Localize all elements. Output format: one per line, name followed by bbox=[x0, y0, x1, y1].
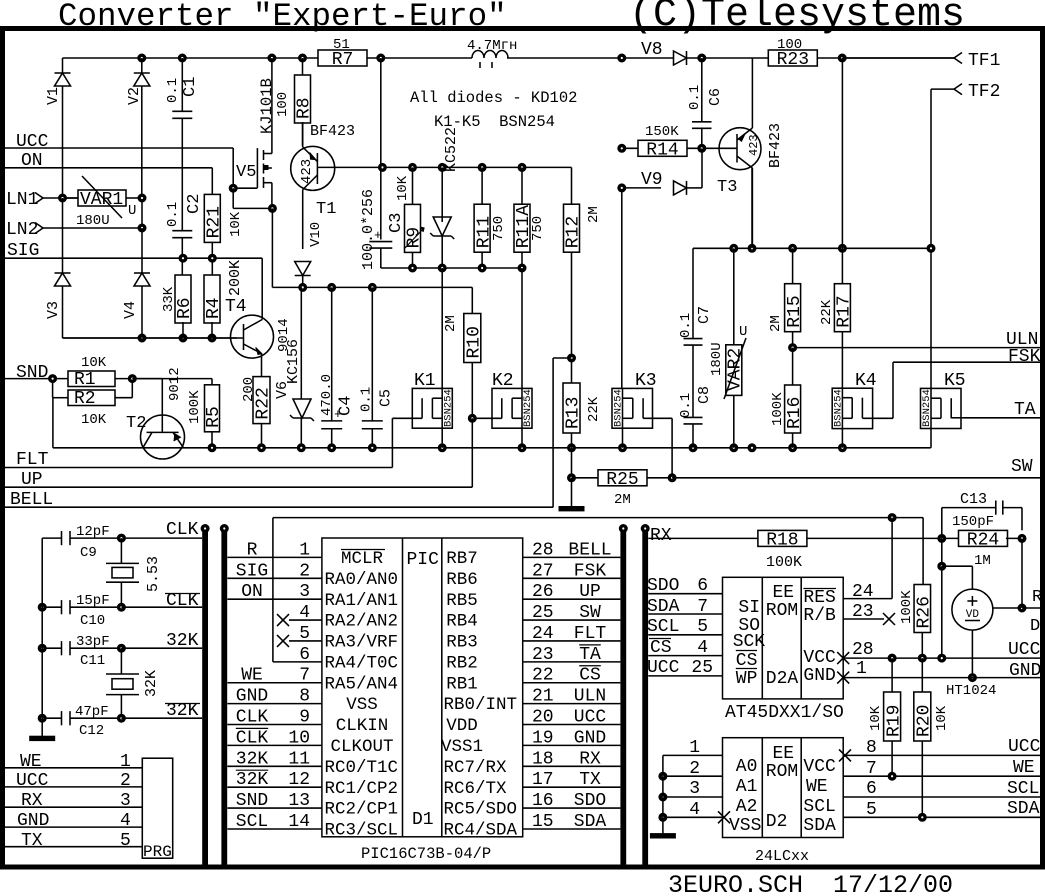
svg-text:C1: C1 bbox=[181, 77, 200, 97]
net ON bbox=[5, 151, 212, 171]
ground crystal bbox=[30, 736, 55, 740]
svg-text:C7: C7 bbox=[696, 306, 713, 324]
svg-text:U: U bbox=[128, 203, 136, 219]
inductor L1 4.7MGn bbox=[467, 38, 517, 68]
svg-text:VDD: VDD bbox=[446, 716, 478, 736]
svg-text:V9: V9 bbox=[641, 170, 663, 190]
net SW bbox=[672, 457, 1040, 478]
svg-text:R4: R4 bbox=[204, 297, 224, 319]
wire RA4 to RES bbox=[273, 514, 923, 662]
svg-text:CS: CS bbox=[579, 666, 601, 686]
svg-text:R15: R15 bbox=[785, 295, 805, 327]
svg-text:D2: D2 bbox=[766, 812, 788, 832]
capacitor C13 bbox=[942, 491, 1022, 538]
IC D2A pin 23 bbox=[843, 602, 895, 625]
svg-text:R8: R8 bbox=[295, 97, 315, 119]
svg-text:33K: 33K bbox=[161, 286, 177, 312]
capacitor C1 bbox=[165, 58, 200, 231]
svg-text:0.1: 0.1 bbox=[678, 313, 694, 338]
svg-text:C5: C5 bbox=[378, 389, 395, 407]
svg-text:R18: R18 bbox=[766, 530, 798, 550]
svg-text:VD: VD bbox=[966, 609, 980, 621]
net LN1 bbox=[6, 190, 78, 210]
svg-text:5: 5 bbox=[120, 831, 131, 851]
IC D2A AT45DXX1 box bbox=[723, 577, 844, 723]
resistor R11A bbox=[514, 167, 546, 268]
diode V4 bbox=[122, 228, 150, 338]
svg-text:RB2: RB2 bbox=[446, 653, 478, 673]
svg-text:2M: 2M bbox=[443, 315, 459, 332]
net WE prg bbox=[5, 752, 142, 772]
resistor R10 bbox=[443, 287, 485, 418]
footer 3EURO.SCH 17/12/00 bbox=[668, 871, 953, 896]
wire crystal left bbox=[41, 538, 43, 736]
svg-text:V1: V1 bbox=[45, 87, 62, 105]
svg-text:C9: C9 bbox=[80, 545, 97, 561]
svg-text:10K: 10K bbox=[934, 705, 950, 731]
svg-text:WP: WP bbox=[736, 669, 758, 689]
net 32K out bbox=[121, 631, 202, 651]
svg-text:V10: V10 bbox=[308, 222, 324, 247]
svg-text:SW: SW bbox=[1011, 457, 1033, 477]
svg-text:470.0: 470.0 bbox=[319, 374, 335, 416]
relay K1 bbox=[392, 268, 454, 468]
svg-text:V2: V2 bbox=[126, 87, 143, 105]
net UCC bottom (pin8) bbox=[839, 737, 1041, 761]
resistor R5 bbox=[187, 379, 224, 448]
resistor R14 bbox=[618, 124, 719, 160]
svg-text:FSK: FSK bbox=[574, 561, 607, 581]
svg-text:SIG: SIG bbox=[236, 561, 268, 581]
svg-text:FLT: FLT bbox=[574, 624, 607, 644]
svg-text:2M: 2M bbox=[768, 315, 784, 332]
svg-text:TF2: TF2 bbox=[968, 82, 1000, 102]
svg-text:PIC: PIC bbox=[407, 550, 440, 570]
svg-text:0.1: 0.1 bbox=[165, 202, 181, 227]
wire T2 collector bbox=[53, 398, 143, 448]
svg-text:KJ101B: KJ101B bbox=[258, 78, 276, 134]
svg-text:KC522: KC522 bbox=[443, 127, 460, 172]
svg-text:RB3: RB3 bbox=[446, 633, 478, 653]
svg-text:WE: WE bbox=[1013, 758, 1035, 778]
svg-text:R/B: R/B bbox=[803, 606, 836, 626]
resistor R11 bbox=[474, 167, 507, 268]
net RX feed bbox=[648, 526, 758, 546]
svg-text:22K: 22K bbox=[819, 299, 835, 325]
bus bar 2 bbox=[220, 525, 228, 866]
diode V8 bbox=[641, 40, 687, 65]
resistor R2 bbox=[49, 375, 137, 428]
resistor R20 bbox=[914, 658, 950, 817]
svg-text:GND: GND bbox=[574, 728, 606, 748]
text all diodes note bbox=[410, 89, 577, 131]
relay K5 bbox=[921, 371, 966, 448]
svg-text:AT45DXX1/SO: AT45DXX1/SO bbox=[725, 703, 844, 723]
svg-text:32K: 32K bbox=[143, 670, 160, 697]
svg-text:C6: C6 bbox=[707, 88, 724, 106]
svg-text:KC156: KC156 bbox=[285, 339, 302, 384]
net FSK bbox=[893, 347, 1041, 367]
svg-text:RA2/AN2: RA2/AN2 bbox=[325, 612, 399, 632]
transistor T2 bbox=[126, 367, 185, 459]
svg-text:BSN254: BSN254 bbox=[833, 389, 845, 427]
svg-text:BSN254: BSN254 bbox=[522, 389, 534, 427]
svg-text:RA5/AN4: RA5/AN4 bbox=[325, 674, 399, 694]
resistor R8 bbox=[275, 58, 315, 146]
svg-text:5: 5 bbox=[697, 617, 708, 637]
svg-text:ON: ON bbox=[241, 582, 263, 602]
svg-text:VSS: VSS bbox=[346, 695, 378, 715]
IC D2A left pins bbox=[647, 576, 723, 678]
net WE bottom (pin7) bbox=[843, 758, 1040, 780]
resistor R6 bbox=[161, 254, 195, 338]
svg-text:SND: SND bbox=[16, 363, 48, 383]
svg-text:ROM: ROM bbox=[766, 601, 798, 621]
capacitor C4 bbox=[319, 287, 356, 447]
wire T1 base line bbox=[335, 163, 572, 171]
capacitor C8 bbox=[678, 386, 713, 448]
svg-text:RA0/AN0: RA0/AN0 bbox=[325, 570, 399, 590]
svg-text:ULN: ULN bbox=[574, 687, 606, 707]
net TF1 bbox=[842, 51, 1000, 71]
svg-text:BF423: BF423 bbox=[310, 123, 355, 140]
resistor R19 bbox=[868, 658, 904, 776]
svg-text:RB7: RB7 bbox=[446, 549, 478, 569]
svg-text:SDA: SDA bbox=[574, 812, 607, 832]
svg-text:RB0/INT: RB0/INT bbox=[444, 695, 518, 715]
zener V7 KC522 bbox=[430, 127, 460, 268]
svg-text:A2: A2 bbox=[736, 797, 758, 817]
net UCC prg bbox=[5, 771, 142, 791]
svg-text:SI: SI bbox=[738, 598, 760, 618]
svg-text:R25: R25 bbox=[606, 470, 638, 490]
svg-text:C2: C2 bbox=[185, 194, 204, 214]
wire mid rail bbox=[143, 444, 931, 452]
svg-text:VCC: VCC bbox=[803, 648, 836, 668]
svg-text:25: 25 bbox=[691, 658, 713, 678]
svg-text:GND: GND bbox=[803, 666, 835, 686]
varistor VAR2 bbox=[709, 248, 747, 447]
capacitor C6 bbox=[687, 58, 724, 148]
svg-text:R26: R26 bbox=[915, 596, 935, 628]
svg-text:T1: T1 bbox=[316, 200, 336, 219]
svg-text:R21: R21 bbox=[205, 206, 225, 238]
svg-text:10K: 10K bbox=[868, 705, 884, 731]
svg-text:C10: C10 bbox=[80, 613, 105, 629]
svg-text:R14: R14 bbox=[646, 140, 678, 160]
svg-text:CLK: CLK bbox=[236, 708, 269, 728]
svg-text:RA3/VRF: RA3/VRF bbox=[325, 633, 399, 653]
svg-text:16: 16 bbox=[532, 791, 554, 811]
bus bar 1 bbox=[201, 525, 209, 866]
svg-text:750: 750 bbox=[491, 216, 507, 241]
svg-text:150pF: 150pF bbox=[952, 514, 994, 530]
svg-text:TX: TX bbox=[579, 770, 601, 790]
transistor T1 bbox=[291, 122, 355, 249]
svg-text:R: R bbox=[1032, 588, 1042, 607]
svg-text:RC4/SDA: RC4/SDA bbox=[444, 821, 518, 841]
resistor R7 bbox=[318, 37, 367, 70]
svg-text:VAR1: VAR1 bbox=[80, 190, 123, 210]
svg-text:10K: 10K bbox=[81, 412, 107, 428]
resistor R24 bbox=[959, 530, 1027, 569]
svg-text:27: 27 bbox=[532, 561, 554, 581]
svg-text:MCLR: MCLR bbox=[341, 549, 384, 569]
net UCC bbox=[5, 132, 233, 152]
svg-text:17: 17 bbox=[532, 770, 554, 790]
svg-text:C12: C12 bbox=[79, 723, 104, 739]
svg-text:TA: TA bbox=[1014, 400, 1036, 420]
IC D1 PIC16C73B box bbox=[322, 538, 523, 863]
svg-text:C8: C8 bbox=[696, 386, 713, 404]
wire bridge bottom bbox=[63, 334, 238, 342]
svg-text:24LCxx: 24LCxx bbox=[755, 848, 809, 865]
net LN2 bbox=[6, 220, 142, 240]
svg-text:423: 423 bbox=[299, 159, 315, 184]
svg-text:2M: 2M bbox=[614, 492, 631, 508]
net FLT bbox=[5, 450, 392, 470]
IC D1 left pin lines bbox=[227, 540, 322, 832]
svg-text:VSS: VSS bbox=[729, 816, 761, 836]
svg-text:19: 19 bbox=[532, 728, 554, 748]
diode V2 bbox=[126, 58, 150, 198]
net /CLK out bbox=[121, 591, 202, 611]
resistor R1 bbox=[68, 355, 132, 390]
svg-text:26: 26 bbox=[532, 582, 554, 602]
IC D2A pin 24 RES bbox=[843, 582, 892, 602]
svg-text:RB1: RB1 bbox=[446, 674, 478, 694]
svg-text:A0: A0 bbox=[736, 757, 758, 777]
svg-text:423: 423 bbox=[747, 134, 761, 156]
svg-text:T4: T4 bbox=[225, 297, 247, 317]
svg-text:5.53: 5.53 bbox=[145, 556, 162, 592]
svg-text:9012: 9012 bbox=[167, 367, 183, 401]
svg-text:FSK: FSK bbox=[1008, 347, 1041, 367]
svg-text:0.1: 0.1 bbox=[358, 387, 374, 412]
svg-text:R2: R2 bbox=[74, 389, 96, 409]
capacitor C5 bbox=[358, 287, 394, 447]
phone D HT1024 bbox=[938, 538, 1040, 699]
svg-text:BELL: BELL bbox=[568, 540, 611, 560]
svg-text:SCL: SCL bbox=[236, 812, 268, 832]
svg-text:0.1: 0.1 bbox=[687, 85, 703, 110]
net /32K out bbox=[121, 701, 202, 721]
svg-text:A1: A1 bbox=[736, 777, 758, 797]
svg-text:EE: EE bbox=[773, 583, 795, 603]
svg-text:SDO: SDO bbox=[574, 791, 606, 811]
svg-text:200K: 200K bbox=[227, 260, 244, 296]
svg-text:RES: RES bbox=[803, 588, 835, 608]
svg-text:25: 25 bbox=[532, 603, 554, 623]
svg-text:RC3/SCL: RC3/SCL bbox=[325, 821, 399, 841]
resistor R22 bbox=[241, 377, 274, 448]
svg-text:CLK: CLK bbox=[166, 520, 199, 540]
svg-text:WE: WE bbox=[806, 777, 828, 797]
svg-text:3EURO.SCH 17/12/00: 3EURO.SCH 17/12/00 bbox=[668, 871, 953, 896]
crystal X1 5.53 bbox=[106, 538, 162, 607]
svg-text:D2A: D2A bbox=[766, 669, 799, 689]
svg-text:All diodes - KD102: All diodes - KD102 bbox=[410, 89, 577, 107]
svg-text:LN1: LN1 bbox=[6, 190, 38, 210]
svg-text:WE: WE bbox=[241, 666, 263, 686]
svg-text:0.1: 0.1 bbox=[165, 78, 181, 103]
svg-text:UCC: UCC bbox=[16, 132, 49, 152]
svg-text:22K: 22K bbox=[586, 396, 602, 422]
svg-text:24: 24 bbox=[532, 624, 554, 644]
capacitor C12 bbox=[38, 704, 125, 739]
svg-text:750: 750 bbox=[530, 216, 546, 241]
svg-text:V8: V8 bbox=[641, 40, 663, 60]
svg-text:15: 15 bbox=[532, 812, 554, 832]
resistor R17 bbox=[819, 58, 855, 388]
net UP bbox=[5, 470, 472, 490]
bus bar 3 bbox=[619, 525, 627, 866]
svg-text:1: 1 bbox=[120, 752, 131, 772]
svg-text:21: 21 bbox=[532, 687, 554, 707]
diode V10 bbox=[295, 222, 324, 288]
svg-text:R24: R24 bbox=[967, 530, 999, 550]
connector PRG bbox=[142, 758, 172, 861]
resistor R25 bbox=[568, 448, 677, 508]
svg-text:SCL: SCL bbox=[803, 797, 835, 817]
ground 24LC bbox=[650, 834, 675, 838]
svg-text:RB4: RB4 bbox=[446, 612, 478, 632]
capacitor C10 bbox=[38, 593, 125, 629]
svg-text:R23: R23 bbox=[777, 50, 809, 70]
wire top rail bbox=[63, 54, 955, 62]
svg-text:RA1/AN1: RA1/AN1 bbox=[325, 591, 399, 611]
net ULN bbox=[793, 330, 1040, 350]
capacitor C7 bbox=[678, 248, 713, 417]
svg-text:LN2: LN2 bbox=[6, 220, 38, 240]
svg-text:100K: 100K bbox=[770, 392, 786, 426]
svg-text:RX: RX bbox=[650, 526, 672, 546]
svg-text:BSN254: BSN254 bbox=[443, 389, 455, 427]
svg-text:GND: GND bbox=[236, 687, 268, 707]
svg-text:100K: 100K bbox=[899, 590, 915, 624]
mosfet V5 KJ101B bbox=[229, 58, 276, 212]
svg-text:R16: R16 bbox=[785, 397, 805, 429]
svg-text:CLKIN: CLKIN bbox=[336, 716, 389, 736]
diode V1 bbox=[45, 58, 71, 198]
svg-text:28: 28 bbox=[852, 640, 874, 660]
zener V6 KC156 bbox=[274, 287, 314, 447]
svg-text:SND: SND bbox=[236, 791, 268, 811]
svg-text:R12: R12 bbox=[564, 216, 584, 248]
net BELL bbox=[5, 490, 553, 510]
svg-text:15pF: 15pF bbox=[76, 593, 110, 609]
svg-text:R5: R5 bbox=[204, 406, 224, 428]
svg-text:R19: R19 bbox=[884, 705, 904, 737]
resistor R16 bbox=[770, 348, 805, 448]
net SDA bottom (pin5) bbox=[843, 799, 1040, 821]
svg-text:SDA: SDA bbox=[1007, 799, 1040, 819]
svg-text:6: 6 bbox=[866, 779, 877, 799]
svg-text:100.0*256: 100.0*256 bbox=[360, 189, 377, 270]
svg-text:C11: C11 bbox=[80, 653, 105, 669]
svg-text:33pF: 33pF bbox=[76, 634, 110, 650]
svg-text:VCC: VCC bbox=[803, 757, 836, 777]
svg-text:TA: TA bbox=[579, 645, 601, 665]
resistor R15 bbox=[768, 248, 805, 351]
relay K3 bbox=[612, 188, 672, 478]
svg-text:V5: V5 bbox=[236, 163, 256, 182]
svg-text:SCL: SCL bbox=[647, 617, 679, 637]
svg-text:1M: 1M bbox=[974, 553, 991, 569]
svg-text:18: 18 bbox=[532, 749, 554, 769]
wire SND to R5 bbox=[132, 378, 212, 380]
net CLK out bbox=[117, 520, 202, 542]
capacitor C9 bbox=[42, 524, 121, 561]
crystal X2 32K bbox=[106, 648, 160, 718]
svg-text:100K: 100K bbox=[187, 390, 203, 424]
svg-text:R13: R13 bbox=[564, 397, 584, 429]
IC D2 24LCxx box bbox=[723, 738, 844, 865]
svg-text:10K: 10K bbox=[395, 175, 411, 201]
svg-text:SW: SW bbox=[579, 603, 601, 623]
svg-text:BF423: BF423 bbox=[767, 123, 784, 168]
wire C3 bottom node bbox=[381, 264, 526, 388]
diode V9 bbox=[618, 148, 702, 195]
svg-text:GND: GND bbox=[1009, 661, 1041, 681]
svg-text:RC6/TX: RC6/TX bbox=[444, 779, 508, 799]
svg-text:D: D bbox=[1030, 617, 1040, 636]
svg-text:10K: 10K bbox=[81, 355, 107, 371]
svg-text:UCC: UCC bbox=[16, 771, 49, 791]
svg-text:R10: R10 bbox=[465, 326, 485, 358]
svg-text:1: 1 bbox=[856, 659, 867, 679]
svg-text:100K: 100K bbox=[766, 554, 802, 571]
svg-text:3: 3 bbox=[120, 791, 131, 811]
svg-text:2: 2 bbox=[120, 771, 131, 791]
title "Converter Expert-Euro" bbox=[58, 0, 507, 35]
svg-text:22: 22 bbox=[532, 666, 554, 686]
net R out bbox=[993, 538, 1042, 612]
svg-text:RX: RX bbox=[21, 791, 43, 811]
wire R7 node bbox=[380, 58, 382, 167]
net TF2 bbox=[931, 82, 1000, 388]
title (C)Telesystems bbox=[629, 0, 965, 38]
svg-text:RC7/RX: RC7/RX bbox=[444, 758, 508, 778]
svg-text:TF1: TF1 bbox=[968, 51, 1000, 71]
wire LN1 node bbox=[59, 194, 147, 232]
IC D1 pin names bbox=[325, 549, 518, 841]
svg-text:UCC: UCC bbox=[574, 708, 607, 728]
svg-text:R: R bbox=[247, 540, 258, 560]
IC D2 left pins bbox=[659, 738, 730, 834]
net GND prg bbox=[5, 811, 142, 831]
resistor R21 bbox=[204, 168, 244, 275]
net UCC right (pin28) bbox=[837, 640, 1040, 664]
svg-text:4: 4 bbox=[120, 811, 131, 831]
svg-text:SDA: SDA bbox=[803, 816, 836, 836]
ground under R13 bbox=[559, 478, 584, 511]
svg-text:BSN254: BSN254 bbox=[921, 389, 933, 427]
net SND bbox=[5, 363, 68, 383]
svg-text:TX: TX bbox=[21, 831, 43, 851]
svg-text:R20: R20 bbox=[915, 705, 935, 737]
varistor VAR1 bbox=[76, 176, 142, 229]
relay K2 bbox=[468, 371, 534, 487]
svg-text:T3: T3 bbox=[717, 178, 737, 197]
svg-text:C4: C4 bbox=[337, 396, 356, 416]
svg-text:200: 200 bbox=[241, 377, 257, 402]
svg-text:D1: D1 bbox=[412, 810, 434, 830]
svg-text:RB5: RB5 bbox=[446, 591, 478, 611]
svg-text:R6: R6 bbox=[175, 297, 195, 319]
svg-text:12pF: 12pF bbox=[76, 524, 110, 540]
net GND right (pin1) bbox=[837, 659, 1041, 684]
